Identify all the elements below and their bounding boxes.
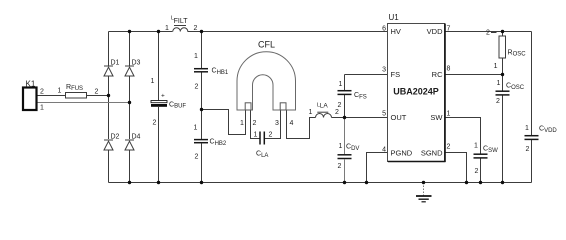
- svg-text:1: 1: [194, 53, 198, 60]
- wire PGND: [367, 153, 388, 183]
- svg-text:D2: D2: [111, 134, 120, 141]
- svg-text:1: 1: [254, 132, 258, 139]
- svg-text:RC: RC: [432, 70, 443, 79]
- wire diode column 1: [108, 32, 110, 67]
- connector K1: [23, 88, 37, 111]
- svg-text:1: 1: [494, 63, 498, 70]
- node bridge AC2: [128, 101, 131, 104]
- svg-text:1: 1: [339, 143, 343, 150]
- wire diode column 2: [129, 32, 131, 67]
- svg-text:1: 1: [497, 80, 501, 87]
- node top rail D3: [128, 30, 131, 33]
- wire top rail left segment: [109, 31, 173, 33]
- diode D3: [125, 66, 134, 76]
- wire RFUS to bridge node: [87, 95, 109, 97]
- svg-text:2: 2: [475, 168, 479, 175]
- svg-text:2: 2: [335, 109, 339, 116]
- lamp filament left: [245, 103, 251, 110]
- svg-text:CFL: CFL: [258, 40, 275, 50]
- wire CLA to lamp pin3: [265, 110, 281, 139]
- wire lamp pin2 to CLA: [251, 110, 260, 139]
- svg-text:D3: D3: [132, 60, 141, 67]
- svg-text:2: 2: [195, 154, 199, 161]
- node RC COSC: [501, 73, 504, 76]
- capacitor CFS: [338, 90, 352, 92]
- svg-text:6: 6: [382, 26, 386, 33]
- svg-text:1: 1: [151, 78, 155, 85]
- svg-text:1: 1: [474, 143, 478, 150]
- svg-text:3: 3: [275, 120, 279, 127]
- svg-text:2: 2: [447, 144, 451, 151]
- svg-text:5: 5: [382, 111, 386, 118]
- svg-text:2: 2: [195, 84, 199, 91]
- svg-text:4: 4: [290, 120, 294, 127]
- svg-text:2: 2: [95, 89, 99, 96]
- svg-text:RFUS: RFUS: [66, 84, 83, 92]
- svg-text:8: 8: [447, 66, 451, 73]
- svg-text:1: 1: [165, 25, 169, 32]
- svg-text:2: 2: [526, 146, 530, 153]
- capacitor CHB2: [194, 139, 208, 141]
- svg-text:FS: FS: [391, 70, 401, 79]
- wire VDD line: [445, 31, 532, 33]
- capacitor CBUF (polarized): [151, 101, 167, 103]
- svg-text:FILT: FILT: [174, 18, 189, 25]
- resistor RFUS: [66, 93, 87, 99]
- node VDD ROSC: [501, 30, 504, 33]
- svg-text:VDD: VDD: [427, 27, 443, 36]
- capacitor CSW: [474, 153, 488, 155]
- svg-text:1: 1: [447, 111, 451, 118]
- wire CHB column: [201, 32, 203, 69]
- wire K1 pin1 to bridge node: [37, 102, 130, 104]
- node bottom CDV: [343, 181, 346, 184]
- svg-text:LA: LA: [320, 103, 329, 110]
- wire LLA to OUT node: [332, 117, 345, 119]
- node bottom SGND: [465, 181, 468, 184]
- svg-text:UBA2024P: UBA2024P: [393, 87, 439, 97]
- node top rail CHB: [200, 30, 203, 33]
- svg-text:1: 1: [339, 81, 343, 88]
- svg-text:2: 2: [496, 98, 500, 105]
- wire bottom rail: [109, 182, 532, 184]
- wire top rail right segment to HV: [188, 31, 388, 33]
- wire FS line: [345, 74, 388, 76]
- node OUT junction: [343, 116, 346, 119]
- svg-text:1: 1: [58, 88, 62, 95]
- wire OUT line: [345, 117, 388, 119]
- capacitor CHB1: [194, 68, 208, 70]
- svg-text:OUT: OUT: [391, 113, 407, 122]
- wire COSC column: [502, 75, 504, 91]
- svg-text:2: 2: [40, 89, 44, 96]
- wire SW to CSW: [445, 118, 481, 154]
- resistor ROSC: [499, 36, 506, 58]
- svg-text:K1: K1: [26, 80, 36, 89]
- capacitor COSC: [496, 90, 510, 92]
- lamp CFL: [237, 52, 296, 110]
- wire ground stub: [423, 183, 425, 196]
- svg-text:2: 2: [486, 30, 490, 37]
- node bottom CSW: [479, 181, 482, 184]
- node bottom CHB2: [200, 181, 203, 184]
- wire RC line: [445, 74, 503, 76]
- svg-text:3: 3: [382, 67, 386, 74]
- svg-text:2: 2: [269, 132, 273, 139]
- svg-text:PGND: PGND: [391, 149, 413, 158]
- wire lamp pin4 to LLA: [287, 110, 316, 139]
- svg-text:SW: SW: [430, 113, 443, 122]
- node bottom D4: [128, 181, 131, 184]
- inductor LLA: [316, 112, 332, 117]
- ground: [416, 196, 432, 202]
- svg-text:1: 1: [194, 125, 198, 132]
- node bottom COSC: [501, 181, 504, 184]
- svg-text:SGND: SGND: [421, 149, 443, 158]
- node CHB mid: [200, 108, 203, 111]
- capacitor CLA (horizontal): [259, 132, 261, 145]
- lamp filament right: [280, 103, 286, 110]
- diode D2: [104, 140, 113, 150]
- svg-text:7: 7: [447, 26, 451, 33]
- node bottom CBUF: [157, 181, 160, 184]
- wire SGND: [445, 153, 467, 183]
- diode D4: [125, 140, 134, 150]
- svg-text:2: 2: [194, 25, 198, 32]
- svg-text:4: 4: [382, 147, 386, 154]
- node bridge AC1: [107, 94, 110, 97]
- svg-text:2: 2: [338, 102, 342, 109]
- wire CHB node to lamp pin1: [202, 110, 246, 135]
- svg-text:2: 2: [338, 163, 342, 170]
- svg-text:2: 2: [253, 120, 257, 127]
- wire CFS stubs: [344, 75, 346, 91]
- svg-text:1: 1: [40, 105, 44, 112]
- wire K1 pin2 to RFUS: [37, 95, 66, 97]
- svg-text:1: 1: [240, 120, 244, 127]
- node bottom PGND: [365, 181, 368, 184]
- svg-text:D1: D1: [111, 60, 120, 67]
- svg-text:2: 2: [153, 120, 157, 127]
- wire right rail VDD: [531, 32, 533, 136]
- svg-text:HV: HV: [391, 27, 401, 36]
- node bottom ground: [422, 181, 425, 184]
- svg-text:U1: U1: [389, 13, 400, 22]
- capacitor CDV: [338, 154, 352, 156]
- diode D1: [104, 66, 113, 76]
- svg-text:1: 1: [525, 125, 529, 132]
- svg-text:+: +: [161, 93, 165, 100]
- inductor LFILT: [173, 26, 188, 32]
- capacitor CVDD: [525, 135, 539, 137]
- wire ROSC leads: [502, 32, 504, 37]
- wire CBUF column: [158, 32, 160, 102]
- node top rail CBUF: [157, 30, 160, 33]
- svg-text:1: 1: [309, 109, 313, 116]
- IC U1 UBA2024P: [388, 24, 445, 162]
- svg-text:ROSC: ROSC: [508, 50, 527, 58]
- wire CDV stubs: [344, 118, 346, 155]
- svg-text:D4: D4: [132, 134, 141, 141]
- svg-text:CBUF: CBUF: [169, 102, 186, 110]
